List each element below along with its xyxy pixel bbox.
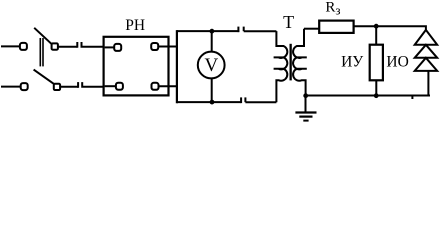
transformer T primary winding (274, 31, 288, 102)
wire primary top left segment (177, 30, 239, 32)
IO bottom lead (427, 71, 429, 96)
svg-text:Т: Т (283, 12, 294, 32)
PH contact bottom-left stub (105, 85, 117, 87)
connector break row 2 left tick (77, 82, 79, 88)
ground bar 1 (295, 111, 316, 113)
PH contact bottom-right stub to bus (159, 85, 177, 87)
switch S1 blade pole 2 (34, 70, 55, 85)
arrester IO triangle 2 (415, 45, 438, 58)
wire primary top right segment (244, 30, 277, 32)
wire drop to IU (375, 26, 377, 45)
bus left vertical of measuring loop (176, 30, 178, 103)
switch S1 blade pole 1 (34, 28, 52, 44)
transformer core (290, 44, 292, 81)
connector break row 2 right tick and wire to PH (82, 82, 104, 87)
PH contact top-left square (114, 44, 121, 51)
svg-text:V: V (205, 55, 219, 76)
svg-text:ИУ: ИУ (341, 54, 363, 71)
PH contact top-right stub to bus (158, 46, 177, 48)
connector break row 1 right tick and wire to PH (82, 42, 105, 47)
connector break row 1 left tick (76, 42, 78, 48)
wire input row 1 lead-in (1, 45, 20, 47)
wire row 2 to connector (60, 86, 78, 88)
svg-text:РН: РН (125, 17, 145, 34)
node junction dot at ground (303, 93, 308, 98)
small nub on bottom bus (411, 97, 413, 100)
PH contact top-left stub (105, 46, 115, 48)
node: voltmeter bottom junction dot (210, 100, 215, 105)
node: voltmeter top junction dot (210, 29, 215, 34)
PH contact bottom-left square (116, 83, 123, 90)
wire from R3 to arrester (354, 26, 426, 30)
regulator PH box (104, 37, 169, 96)
svg-text:Rз: Rз (325, 0, 340, 18)
IU box (370, 45, 383, 81)
voltmeter PV1 circle (198, 52, 225, 79)
terminal X2 (row 2) (21, 83, 28, 90)
wire bottom bus secondary (304, 95, 430, 97)
voltmeter top lead (211, 31, 213, 52)
switch S1 linkage bar line 2 (42, 38, 44, 66)
svg-text:ИО: ИО (386, 54, 408, 71)
node junction dot above IU (374, 24, 379, 29)
IU bottom lead (375, 80, 377, 95)
wire input row 2 lead-in (1, 86, 21, 88)
wire row 1 to connector (58, 46, 78, 48)
connector break bottom wire right tick (244, 97, 246, 102)
wire secondary top to R3 (304, 28, 319, 30)
wire primary bottom right segment (245, 101, 276, 103)
connector break bottom wire left tick (240, 97, 242, 103)
arrester IO triangle 3 (415, 58, 438, 71)
node junction dot below IU (374, 93, 379, 98)
resistor R3 box (319, 21, 353, 33)
arrester IO triangle 1 (415, 30, 438, 45)
switch contact square row 1 (52, 43, 58, 49)
switch contact square row 2 (54, 84, 60, 90)
PH contact bottom-right square (152, 83, 159, 90)
connector break top wire left tick (237, 27, 239, 32)
wire primary bottom left segment (177, 101, 241, 103)
transformer T secondary winding (293, 29, 307, 96)
ground lead (305, 96, 307, 112)
switch S1 linkage bar (39, 38, 41, 66)
ground bar 2 (299, 115, 312, 117)
voltmeter bottom lead (211, 78, 213, 102)
connector break top wire right tick (243, 27, 245, 32)
PH contact top-right square (151, 43, 158, 50)
ground bar 3 (303, 120, 308, 122)
terminal X1 (row 1) (20, 43, 27, 50)
